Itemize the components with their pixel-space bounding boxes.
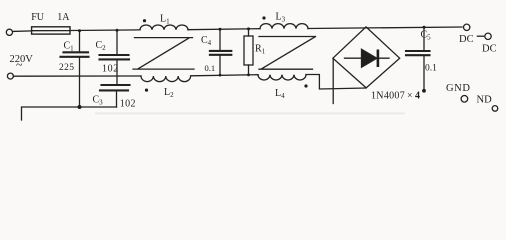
svg-text:L4: L4 [275,88,285,100]
diode inside bridge [345,49,390,67]
wire [13,75,141,77]
svg-text:L2: L2 [164,87,174,99]
svg-text:0.1: 0.1 [205,63,216,73]
capacitor C5 [406,27,430,90]
terminal GND 2 [492,106,498,112]
svg-text:C1: C1 [64,41,75,53]
bridge rectifier diamond [333,27,400,88]
svg-text:~: ~ [16,58,23,72]
terminal top-left [6,29,12,35]
svg-text:102: 102 [102,63,119,74]
svg-text:R1: R1 [255,44,266,56]
wire [306,75,366,90]
junction C2 top [116,29,119,32]
bridge AC leg wire [332,58,334,103]
svg-text:C5: C5 [421,30,432,42]
choke core Z (L3/L4) [259,37,316,70]
svg-text:225: 225 [59,63,74,73]
svg-text:1A: 1A [57,12,70,23]
capacitor C2 [100,30,130,85]
wire [13,30,32,33]
wire [188,29,260,30]
terminal DC 2 [485,33,491,39]
junction R1 bottom [247,74,250,77]
junction C4 top [219,28,222,31]
junction C1 top [78,29,81,32]
terminal DC 2 dash [477,35,483,37]
svg-text:FU: FU [31,12,45,23]
terminal GND 1 [461,96,468,103]
capacitor C3 [100,85,130,107]
junction ground/C1 [78,105,82,109]
phase dot L1 [143,19,146,22]
junction C4 bottom [219,74,222,77]
svg-text:ND: ND [477,95,493,106]
choke core Z (L1/L2) [133,38,194,70]
capacitor C4 [210,29,231,75]
inductor L1 [140,25,188,30]
svg-text:0.1: 0.1 [425,64,437,74]
phase dot L3 [262,16,265,19]
capacitor C1 [61,31,89,107]
svg-text:1N4007×4: 1N4007×4 [371,91,420,102]
wire [70,29,140,32]
svg-text:DC: DC [482,44,497,55]
junction C5 top [423,26,426,29]
resistor R1 [244,29,253,75]
terminal DC 1 [464,24,470,30]
svg-text:C3: C3 [93,95,104,107]
ground rail [22,107,117,120]
wire [191,75,258,76]
C5 end dot [422,89,426,93]
inductor L4 [258,75,306,80]
svg-text:GND: GND [446,83,471,94]
svg-text:L3: L3 [276,12,286,24]
phase dot L4 [304,84,307,87]
svg-text:C4: C4 [201,35,212,47]
inductor L3 [260,24,308,29]
svg-text:C2: C2 [96,40,107,52]
wire [308,27,462,29]
junction R1 top [247,27,250,30]
inductor L2 [141,76,191,82]
svg-text:102: 102 [120,98,136,109]
fuse FU [32,27,70,34]
phase dot L2 [145,89,148,92]
terminal bottom-left [7,73,13,79]
svg-text:L1: L1 [160,14,170,26]
svg-text:DC: DC [459,34,474,45]
scan smear artifact [95,113,405,115]
